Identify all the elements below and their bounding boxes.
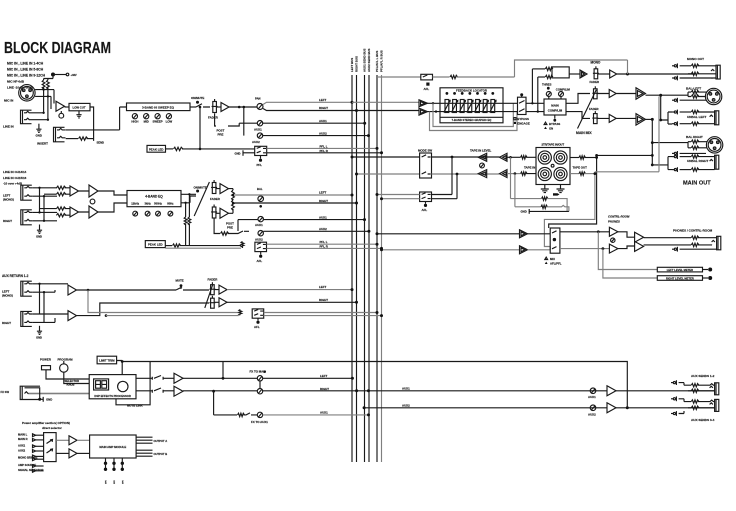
- pots FX TO MAIN left/right: [250, 370, 359, 394]
- svg-text:PFL: PFL: [257, 163, 263, 167]
- switch ON/MUTE stereo channel with peak taps: [181, 186, 207, 246]
- op-amp mic preamp with gain pot: [56, 101, 65, 118]
- svg-text:MIC IN: MIC IN: [4, 99, 13, 103]
- svg-text:FADER: FADER: [210, 197, 221, 201]
- op-amps master LEFT/RIGHT bus summing: [352, 100, 440, 115]
- svg-text:AUX1: AUX1: [18, 444, 26, 448]
- wire bypass loop around graphic EQ: [430, 103, 518, 130]
- faders MAIN MIX ganged with amps: [566, 86, 636, 135]
- svg-text:PFL/AFL R BUS: PFL/AFL R BUS: [380, 50, 384, 72]
- connectors RCA 2TR/TAPE IN/OUT: [524, 142, 587, 192]
- connectors speaker outputs: [104, 458, 125, 484]
- svg-text:AFL: AFL: [257, 259, 263, 263]
- svg-text:7-BAND STEREO GRAPHIC EQ: 7-BAND STEREO GRAPHIC EQ: [452, 118, 492, 122]
- svg-text:AUX1: AUX1: [254, 127, 262, 131]
- svg-text:ENGAGE: ENGAGE: [517, 121, 530, 125]
- op-amps main output drivers: [636, 88, 646, 125]
- jack UNBAL RIGHT: [652, 154, 719, 172]
- svg-text:SELECTOR: SELECTOR: [65, 379, 80, 383]
- svg-text:GND: GND: [46, 398, 52, 402]
- channel legend text: [7, 62, 46, 90]
- svg-text:KNOB: KNOB: [67, 383, 75, 387]
- svg-text:GND: GND: [36, 235, 42, 239]
- jacks stereo LEFT(MONO)/RIGHT inputs: [3, 185, 57, 238]
- svg-text:MODE SW: MODE SW: [418, 148, 432, 152]
- svg-text:AUX1: AUX1: [320, 411, 328, 415]
- svg-text:MAIN MIX: MAIN MIX: [576, 131, 592, 135]
- ganged faders stereo channel: [194, 180, 234, 218]
- pot FX TO AUX1: [214, 378, 370, 424]
- svg-text:FEEDBACK LOCATOR: FEEDBACK LOCATOR: [456, 88, 488, 92]
- svg-text:TAPE IN LEVEL: TAPE IN LEVEL: [470, 148, 492, 152]
- fader MONO with amps: [569, 61, 695, 85]
- svg-text:MIC IN , LINE IN 1-4CH: MIC IN , LINE IN 1-4CH: [7, 62, 44, 66]
- XLR connector MIC IN: [4, 85, 54, 109]
- svg-text:PFL L: PFL L: [320, 144, 328, 148]
- jack INSERT send/return: [37, 107, 127, 146]
- controls POWER switch and PROGRAM selector: [40, 358, 89, 387]
- svg-text:PEAK LED: PEAK LED: [149, 147, 164, 151]
- switch AFL AUX RETURN to PFL buses: [88, 290, 383, 329]
- svg-text:PFL R: PFL R: [320, 245, 329, 249]
- switch AFL main-mix to PFL bus: [376, 157, 458, 212]
- svg-text:TAPE OUT: TAPE OUT: [573, 166, 588, 170]
- svg-text:RIGHT: RIGHT: [320, 387, 329, 391]
- svg-text:MAIN L: MAIN L: [18, 433, 28, 437]
- switch MODE SW stereo monitor: [351, 148, 500, 178]
- svg-text:CONTRL-ROOM: CONTRL-ROOM: [608, 215, 630, 219]
- svg-text:PFL/AFL L BUS: PFL/AFL L BUS: [375, 51, 379, 72]
- svg-text:LEFT: LEFT: [319, 285, 326, 289]
- svg-text:AUX2: AUX2: [255, 237, 263, 241]
- svg-text:3-BAND HI SWEEP EQ: 3-BAND HI SWEEP EQ: [142, 105, 175, 109]
- svg-text:FX TO AUX1: FX TO AUX1: [251, 420, 268, 424]
- svg-text:RIGHT: RIGHT: [319, 199, 328, 203]
- svg-text:LEFT BUS: LEFT BUS: [350, 58, 354, 72]
- svg-text:RIGHT BUS: RIGHT BUS: [355, 56, 359, 72]
- svg-text:GND: GND: [521, 210, 527, 214]
- svg-text:GND: GND: [36, 336, 42, 340]
- svg-text:TAPE IN: TAPE IN: [524, 166, 535, 170]
- indicators LEFT/RIGHT LEVEL METER: [598, 232, 712, 281]
- filter LOW CUT: [65, 103, 91, 118]
- module DSP EFFECTS PROCESSOR with display: [89, 375, 136, 399]
- op-amps TAPE IN with level pot: [470, 148, 536, 177]
- svg-text:ON/MUTE: ON/MUTE: [191, 96, 204, 100]
- svg-text:PROGRAM: PROGRAM: [58, 358, 74, 362]
- svg-text:4-BAND EQ: 4-BAND EQ: [145, 195, 163, 199]
- svg-text:AFL/PFL: AFL/PFL: [550, 261, 562, 265]
- svg-text:MAIN R: MAIN R: [18, 437, 28, 441]
- svg-text:FADER: FADER: [208, 116, 219, 120]
- svg-text:MAIN OUT: MAIN OUT: [683, 181, 711, 187]
- wires MAIN L/R to control-room select: [544, 97, 659, 247]
- svg-text:PFL R: PFL R: [320, 149, 329, 153]
- jack LINE IN with ground: [3, 110, 49, 137]
- svg-text:UNBAL LEFT: UNBAL LEFT: [687, 115, 706, 119]
- svg-text:AUX1: AUX1: [319, 119, 327, 123]
- pot BAL stereo channel to LEFT/RIGHT buses: [232, 187, 358, 208]
- svg-text:AUX2 SEND BUS: AUX2 SEND BUS: [367, 48, 371, 72]
- summing network MONO from L/R: [526, 67, 569, 113]
- svg-text:LEFT: LEFT: [319, 98, 326, 102]
- svg-text:AUX1: AUX1: [402, 386, 410, 390]
- jack PHONES / CONTRL-ROOM: [644, 229, 721, 252]
- svg-text:LOW: LOW: [166, 120, 173, 124]
- svg-text:direct selector: direct selector: [42, 426, 63, 430]
- switch and op-amp FX left output: [136, 361, 257, 383]
- jacks AUX RETURN 1-2 LEFT(MONO)/RIGHT: [2, 274, 68, 340]
- svg-text:(MONO): (MONO): [3, 198, 14, 202]
- label MAIN OUT: [683, 181, 711, 187]
- selector inputs MAIN L/R AUX1/2 MONO BRIDGE: [18, 433, 44, 473]
- svg-text:LOW CUT: LOW CUT: [73, 106, 86, 110]
- svg-text:2TR/TAPE IN/OUT: 2TR/TAPE IN/OUT: [541, 142, 564, 146]
- label power amplifier section: [22, 421, 70, 430]
- svg-text:UNBAL RIGHT: UNBAL RIGHT: [687, 159, 708, 163]
- svg-text:PRE: PRE: [227, 225, 233, 229]
- svg-text:BAL: BAL: [257, 187, 263, 191]
- svg-text:ON/MUTE: ON/MUTE: [194, 186, 207, 190]
- switch and op-amp FX right output: [136, 386, 257, 396]
- svg-text:GND: GND: [36, 134, 42, 138]
- svg-text:AUX SENDS 1-2: AUX SENDS 1-2: [691, 374, 715, 378]
- svg-text:MIC IN , LINE IN 9-12CH: MIC IN , LINE IN 9-12CH: [7, 74, 46, 78]
- svg-text:POWER: POWER: [40, 358, 52, 362]
- svg-text:RIGHT LEVEL METER: RIGHT LEVEL METER: [666, 276, 694, 280]
- svg-text:AUX2: AUX2: [319, 131, 327, 135]
- XLR connector BAL RIGHT: [646, 118, 723, 166]
- svg-text:FADER: FADER: [208, 278, 219, 282]
- svg-text:80Hz: 80Hz: [167, 201, 174, 205]
- equalizer 4-BAND EQ stereo channel: [98, 191, 181, 217]
- svg-text:AFL: AFL: [422, 208, 428, 212]
- svg-text:AFL: AFL: [424, 87, 430, 91]
- amplifier MAIN AMP MODULE with OUTPUT A/B: [90, 435, 168, 458]
- phantom power +48V with resistors: [42, 73, 77, 120]
- svg-text:PHONES: PHONES: [608, 219, 620, 223]
- svg-text:PFL L: PFL L: [320, 240, 328, 244]
- trim LIMIT TRIM: [97, 356, 122, 374]
- title BLOCK DIAGRAM: [4, 40, 111, 57]
- svg-text:HIGH: HIGH: [131, 120, 138, 124]
- svg-text:RIGHT: RIGHT: [2, 321, 11, 325]
- svg-text:ON: ON: [549, 126, 553, 130]
- bus lines LEFT/RIGHT/AUX1/AUX2/PFL-L/PFL-R with labels: [350, 48, 384, 462]
- svg-text:MID: MID: [144, 120, 149, 124]
- svg-text:LEFT: LEFT: [320, 374, 327, 378]
- svg-text:AUX1: AUX1: [255, 223, 263, 227]
- svg-text:PAN: PAN: [255, 97, 261, 101]
- fader channel 1 with POST/PRE select: [208, 99, 257, 137]
- svg-text:FADER: FADER: [589, 107, 598, 111]
- op-amps power amp drivers: [56, 436, 90, 458]
- svg-text:MIX: MIX: [550, 257, 555, 261]
- svg-text:500Hz: 500Hz: [154, 201, 162, 205]
- svg-text:12kHz: 12kHz: [131, 201, 139, 205]
- svg-text:MIC NF-6dB: MIC NF-6dB: [7, 80, 25, 84]
- svg-text:THRES: THRES: [542, 83, 552, 87]
- svg-text:LEFT: LEFT: [319, 191, 326, 195]
- svg-text:(MONO): (MONO): [2, 294, 13, 298]
- jack MONO OUT: [672, 57, 720, 80]
- svg-text:INSERT: INSERT: [37, 142, 48, 146]
- svg-text:LINE IN: LINE IN: [3, 125, 14, 129]
- svg-text:BLOCK DIAGRAM: BLOCK DIAGRAM: [4, 40, 111, 57]
- svg-text:+48V: +48V: [71, 73, 77, 77]
- equalizer 3-BAND HI SWEEP EQ with HIGH/MID/SWEEP/LOW pots: [127, 103, 191, 124]
- switch channel ON/MUTE: [190, 96, 210, 150]
- jack UNBAL LEFT: [659, 95, 719, 126]
- svg-text:RIGHT: RIGHT: [3, 219, 12, 223]
- selector AMP SOURCE SIGNAL SELECTOR: [44, 433, 57, 462]
- svg-text:3kHz: 3kHz: [144, 201, 151, 205]
- pots AUX1/AUX2 stereo channel: [214, 216, 370, 242]
- dynamics MAIN COMP/LIM with THRES pot: [542, 83, 570, 131]
- op-amps CONTRL-ROOM PHONES: [560, 215, 644, 254]
- svg-text:MONO OUT: MONO OUT: [687, 57, 704, 61]
- svg-text:AUX2: AUX2: [588, 412, 596, 416]
- svg-text:PEAK LED: PEAK LED: [148, 243, 163, 247]
- svg-text:RIGHT: RIGHT: [319, 298, 328, 302]
- svg-text:MONO: MONO: [591, 61, 601, 65]
- switch control-room source MIX vs AFL/PFL: [545, 228, 562, 265]
- svg-text:MAIN AMP MODULE: MAIN AMP MODULE: [99, 445, 126, 449]
- svg-text:AUX2: AUX2: [18, 448, 26, 452]
- svg-text:LINE IN CH13/14: LINE IN CH13/14: [3, 170, 27, 174]
- svg-text:RIGHT: RIGHT: [319, 106, 328, 110]
- svg-text:BAL-LEFT: BAL-LEFT: [686, 87, 701, 91]
- wire MUTE LINK: [116, 362, 150, 408]
- faders AUX RETURN to LEFT/RIGHT buses: [205, 278, 358, 309]
- svg-text:OUTPUT B: OUTPUT B: [154, 452, 168, 456]
- svg-text:SWEEP: SWEEP: [153, 120, 163, 124]
- pot AUX2 master send: [363, 403, 715, 417]
- wires TAPE OUT fed from main mix: [570, 156, 598, 176]
- svg-text:AUX1: AUX1: [319, 216, 327, 220]
- svg-text:AFL: AFL: [254, 325, 260, 329]
- svg-text:GND: GND: [235, 152, 241, 156]
- svg-text:AUX2: AUX2: [252, 140, 260, 144]
- wire FX feed from AUX2 send: [121, 360, 628, 408]
- svg-text:AUX RETURN 1-2: AUX RETURN 1-2: [2, 274, 29, 278]
- switch PFL channel 1: [235, 144, 384, 167]
- svg-text:SEND: SEND: [97, 141, 105, 145]
- svg-text:BAL RIGHT: BAL RIGHT: [686, 135, 703, 139]
- svg-text:AUX1 SEND BUS: AUX1 SEND BUS: [363, 48, 367, 72]
- svg-text:DSP EFFECTS PROCESSOR: DSP EFFECTS PROCESSOR: [94, 394, 130, 398]
- svg-text:AUX SENDS 3-4: AUX SENDS 3-4: [691, 418, 715, 422]
- svg-text:FX SW: FX SW: [1, 390, 10, 394]
- svg-text:AUX2: AUX2: [402, 404, 410, 408]
- svg-text:PRE: PRE: [218, 133, 224, 137]
- svg-text:AUX2: AUX2: [319, 227, 327, 231]
- stereo channel legend: [3, 170, 27, 185]
- pots AUX1/AUX2 sends channel 1: [239, 107, 370, 144]
- equalizer FEEDBACK LOCATOR 7-BAND STEREO GRAPHIC EQ: [440, 88, 503, 123]
- network tape monitor loop: [511, 157, 569, 214]
- svg-text:Power amplifier section( OPTIO: Power amplifier section( OPTION): [22, 421, 70, 425]
- switch AFL PFL-to-mono routing: [377, 60, 628, 91]
- svg-text:MAIN: MAIN: [551, 104, 558, 108]
- op-amps stereo input stage with trim: [40, 185, 99, 218]
- svg-text:BYPASS: BYPASS: [549, 122, 560, 126]
- op-amps PFL/AFL to control room: [376, 230, 551, 254]
- svg-text:LEFT LEVEL METER: LEFT LEVEL METER: [667, 268, 693, 272]
- pot AUX1 master send: [357, 386, 715, 399]
- XLR connector BAL-LEFT: [646, 87, 722, 105]
- svg-text:COMP/LIM: COMP/LIM: [548, 109, 563, 113]
- op-amps AUX RETURN with MUTE switch: [68, 279, 209, 321]
- svg-text:FADER: FADER: [590, 80, 599, 84]
- jack FX footswitch: [1, 386, 90, 401]
- svg-text:COMP/LIM: COMP/LIM: [556, 88, 571, 92]
- svg-text:-10 over +4dB: -10 over +4dB: [3, 181, 22, 185]
- pot PAN channel 1 to LEFT/RIGHT buses: [255, 97, 358, 113]
- svg-text:MUTE: MUTE: [176, 279, 184, 283]
- svg-text:PHONES / CONTRL-ROOM: PHONES / CONTRL-ROOM: [673, 229, 713, 233]
- svg-text:OUTPUT A: OUTPUT A: [154, 439, 168, 443]
- svg-text:AUX1: AUX1: [588, 395, 596, 399]
- jack AUX SENDS 3-4: [671, 396, 719, 421]
- svg-text:LIMIT TRIM: LIMIT TRIM: [99, 358, 115, 362]
- indicator PEAK LED: [147, 145, 255, 152]
- indicator PEAK LED and switch AFL stereo channel: [145, 240, 383, 263]
- svg-text:MIC IN , LINE IN 5-8CH: MIC IN , LINE IN 5-8CH: [7, 68, 44, 72]
- jack AUX SENDS 1-2: [671, 374, 719, 395]
- switch graphic EQ BYPASS/ENGAGE: [503, 93, 530, 125]
- svg-text:MUTE LINK: MUTE LINK: [127, 404, 144, 408]
- svg-text:LINE IN CH15/16: LINE IN CH15/16: [3, 176, 27, 180]
